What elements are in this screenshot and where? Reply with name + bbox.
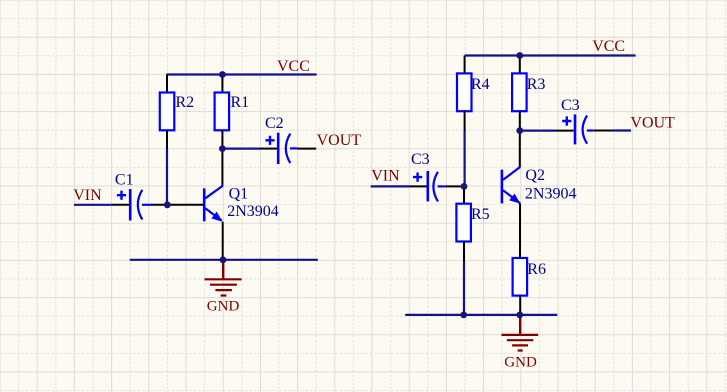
svg-text:GND: GND	[207, 299, 240, 315]
svg-text:R3: R3	[527, 76, 546, 93]
svg-text:Q2: Q2	[525, 167, 545, 184]
svg-text:R6: R6	[527, 261, 546, 278]
svg-text:R1: R1	[231, 94, 250, 111]
svg-text:R2: R2	[176, 94, 195, 111]
svg-text:R5: R5	[471, 206, 490, 223]
svg-text:C2: C2	[265, 115, 284, 132]
svg-text:R4: R4	[471, 76, 490, 93]
svg-text:VIN: VIN	[371, 168, 400, 185]
svg-text:VOUT: VOUT	[630, 115, 675, 132]
svg-text:VCC: VCC	[277, 58, 310, 75]
svg-text:2N3904: 2N3904	[227, 203, 279, 220]
svg-text:GND: GND	[504, 355, 537, 371]
svg-text:C3: C3	[561, 97, 580, 114]
svg-text:2N3904: 2N3904	[525, 185, 577, 202]
svg-text:C1: C1	[115, 171, 134, 188]
svg-text:Q1: Q1	[229, 185, 249, 202]
svg-text:VOUT: VOUT	[317, 132, 362, 149]
svg-text:C3: C3	[411, 151, 430, 168]
svg-text:VCC: VCC	[592, 38, 625, 55]
svg-text:VIN: VIN	[73, 187, 102, 204]
